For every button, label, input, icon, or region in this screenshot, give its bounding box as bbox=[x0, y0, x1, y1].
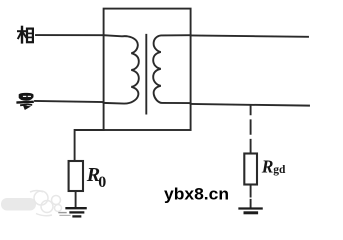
label 相 (phase) bbox=[18, 27, 33, 43]
resistor R0 bbox=[69, 161, 83, 191]
svg-text:gd: gd bbox=[273, 164, 286, 176]
svg-text:ybx8.cn: ybx8.cn bbox=[164, 185, 229, 204]
ground (left) bbox=[59, 208, 86, 216]
label R0 bbox=[86, 164, 107, 191]
wire: Rgd to ground bbox=[250, 185, 252, 207]
wire: secondary output bottom bbox=[191, 104, 309, 106]
wire: enclosure to R0 bbox=[75, 130, 104, 161]
transformer enclosure box bbox=[104, 9, 191, 130]
svg-text:0: 0 bbox=[98, 174, 106, 191]
wire: neutral line bbox=[35, 101, 104, 102]
resistor Rgd bbox=[244, 154, 257, 185]
label 零 (neutral) bbox=[18, 93, 33, 109]
wire: phase line bbox=[36, 34, 104, 36]
transformer T1 secondary winding bbox=[153, 35, 190, 103]
dashed wire to Rgd bbox=[250, 106, 252, 153]
transformer T1 primary winding bbox=[104, 35, 139, 103]
label Rgd bbox=[261, 157, 286, 177]
wire: secondary output top bbox=[191, 35, 308, 36]
transformer core bbox=[145, 35, 147, 114]
svg-text:R: R bbox=[261, 157, 274, 177]
wire: R0 to ground bbox=[75, 191, 77, 207]
watermark stamp (bottom-left) bbox=[1, 191, 62, 216]
ground (right) bbox=[240, 209, 262, 213]
